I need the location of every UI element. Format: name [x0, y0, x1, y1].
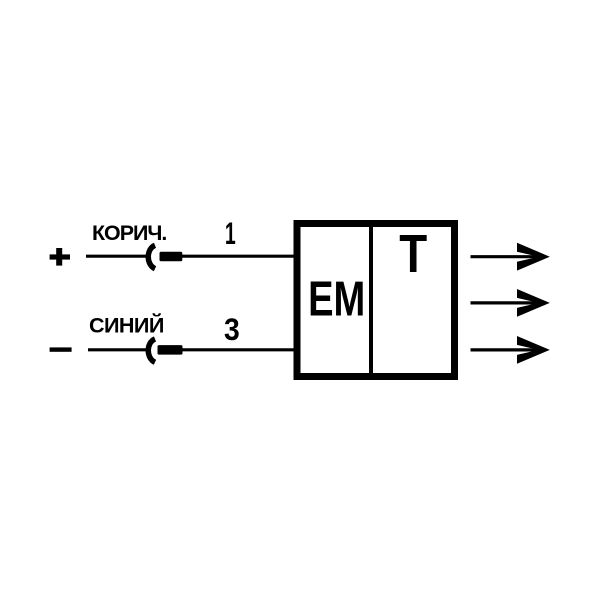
svg-text:3: 3: [224, 313, 240, 348]
svg-text:1: 1: [225, 215, 236, 251]
connector pin (brown wire): [160, 252, 183, 261]
svg-text:T: T: [399, 223, 427, 283]
wire: [86, 255, 148, 258]
minus terminal: [50, 347, 72, 351]
plus terminal: [50, 248, 70, 266]
output arrow 2: [471, 289, 550, 317]
sensor body box: [297, 224, 455, 377]
connector socket (brown wire): [148, 245, 155, 268]
connector socket (blue wire): [148, 339, 155, 362]
output arrow 1: [471, 243, 550, 271]
output arrow 3: [471, 336, 550, 364]
cell divider: [369, 227, 373, 373]
svg-text:КОРИЧ.: КОРИЧ.: [92, 221, 166, 245]
connector pin (blue wire): [158, 345, 183, 355]
svg-text:СИНИЙ: СИНИЙ: [89, 313, 164, 338]
wire: [182, 348, 294, 351]
wire: [88, 348, 148, 351]
wire: [182, 255, 294, 258]
svg-text:EM: EM: [308, 272, 365, 327]
